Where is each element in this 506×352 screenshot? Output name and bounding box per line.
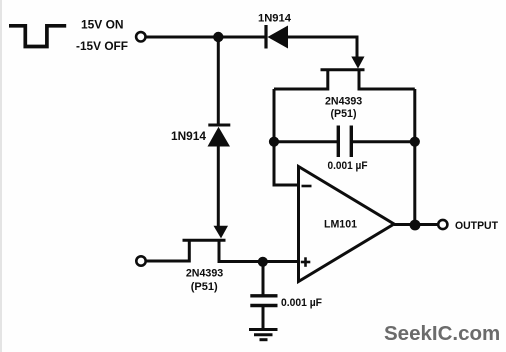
- diode D2 1N914 (vertical, pointing up): [208, 124, 230, 127]
- svg-text:(P51): (P51): [331, 108, 357, 120]
- wire: top input to diode D1: [146, 36, 265, 39]
- wire: capacitor C2 to ground: [262, 307, 265, 328]
- svg-text:15V ON: 15V ON: [81, 18, 124, 32]
- svg-text:1N914: 1N914: [258, 13, 292, 25]
- svg-text:2N4393: 2N4393: [325, 96, 362, 108]
- wire: right vertical from Q1 drain down to output node: [413, 89, 416, 226]
- svg-text:0.001 µF: 0.001 µF: [328, 160, 368, 172]
- Q2 channel bar: [183, 239, 226, 242]
- wire: diode D1 to Q1 gate: [288, 37, 357, 58]
- Q2 drain lead: [219, 242, 299, 262]
- diode D1 1N914 (horizontal, pointing left): [264, 25, 267, 49]
- svg-text:2N4393: 2N4393: [186, 267, 223, 279]
- transistor Q1 2N4393 (top JFET) gate arrow: [351, 57, 364, 69]
- input pulse waveform symbol: [9, 26, 66, 47]
- output terminal: [438, 220, 447, 229]
- output node junction dot: [410, 220, 421, 231]
- wire: op-amp output: [394, 223, 438, 226]
- node junction dot (left of feedback cap): [269, 137, 279, 147]
- op-amp minus sign: [302, 185, 312, 188]
- wire: feedback rail right: [351, 140, 415, 143]
- node junction dot (+ input): [258, 257, 268, 267]
- svg-text:-15V OFF: -15V OFF: [76, 39, 128, 53]
- Q1 drain lead: [359, 71, 415, 89]
- input terminal (top): [136, 32, 145, 41]
- op-amp U1 LM101 triangle: [299, 167, 395, 282]
- wire: junction down to capacitor C2: [262, 262, 265, 295]
- capacitor C1 0.001uF (feedback): [337, 126, 340, 158]
- svg-text:SeekIC.com: SeekIC.com: [384, 322, 500, 345]
- svg-text:LM101: LM101: [324, 219, 357, 231]
- svg-text:OUTPUT: OUTPUT: [455, 220, 498, 232]
- svg-text:(P51): (P51): [191, 281, 218, 293]
- node junction dot (right of feedback cap): [410, 137, 420, 147]
- input terminal (bottom): [136, 256, 145, 265]
- transistor Q2 2N4393 (bottom JFET) gate arrow: [214, 226, 229, 239]
- Q1 channel bar: [321, 68, 365, 71]
- Q2 source lead: [146, 242, 189, 262]
- svg-text:1N914: 1N914: [171, 129, 206, 143]
- wire: node A down to diode D2: [217, 37, 220, 124]
- scan edge artifact: [0, 0, 2, 352]
- svg-text:0.001 µF: 0.001 µF: [281, 297, 322, 309]
- Q1 source lead: [274, 71, 328, 89]
- capacitor C2 0.001uF (to ground): [250, 294, 277, 297]
- wire: feedback rail left: [274, 140, 338, 143]
- op-amp plus sign: [301, 261, 311, 264]
- wire: left vertical from Q1 source down to inverting input: [274, 89, 299, 185]
- wire: diode D2 to Q2 gate: [217, 147, 220, 227]
- node A junction dot: [213, 32, 223, 42]
- ground: [249, 328, 278, 331]
